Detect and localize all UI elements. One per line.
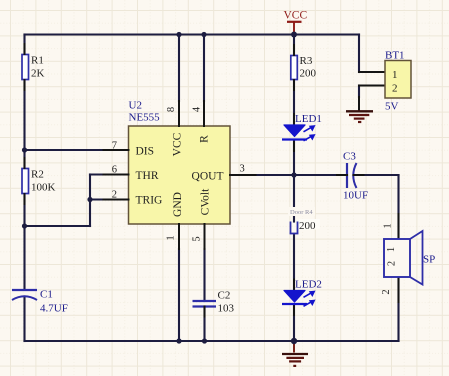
svg-text:U2: U2: [129, 100, 142, 112]
svg-text:R2: R2: [31, 169, 44, 181]
svg-text:THR: THR: [136, 170, 159, 182]
svg-text:1: 1: [166, 235, 177, 240]
svg-text:QOUT: QOUT: [192, 171, 224, 183]
svg-text:LED1: LED1: [295, 113, 322, 125]
svg-text:R1: R1: [31, 55, 44, 67]
svg-text:1: 1: [392, 69, 398, 81]
svg-text:VCC: VCC: [284, 10, 308, 22]
svg-text:2K: 2K: [31, 68, 45, 80]
svg-text:C2: C2: [218, 290, 231, 302]
svg-text:2: 2: [381, 289, 392, 294]
svg-text:200: 200: [299, 220, 316, 232]
svg-text:5V: 5V: [385, 101, 399, 113]
svg-text:3: 3: [240, 164, 245, 175]
svg-text:C1: C1: [40, 289, 53, 301]
svg-text:NE555: NE555: [129, 112, 161, 124]
svg-text:Door R4: Door R4: [290, 209, 313, 216]
svg-text:5: 5: [192, 236, 203, 241]
svg-text:VCC: VCC: [172, 132, 184, 156]
svg-text:8: 8: [166, 107, 177, 112]
svg-text:10UF: 10UF: [343, 190, 368, 202]
svg-text:4.7UF: 4.7UF: [40, 303, 68, 315]
svg-text:100K: 100K: [31, 182, 56, 194]
svg-text:6: 6: [112, 165, 117, 176]
svg-text:103: 103: [218, 303, 235, 315]
svg-text:C3: C3: [343, 151, 356, 163]
svg-text:7: 7: [112, 141, 117, 152]
svg-text:2: 2: [112, 190, 117, 201]
svg-text:LED2: LED2: [295, 279, 322, 291]
svg-text:TRIG: TRIG: [136, 195, 163, 207]
svg-text:1: 1: [386, 247, 397, 252]
svg-text:2: 2: [392, 83, 398, 95]
svg-text:2: 2: [387, 261, 398, 266]
svg-text:1: 1: [383, 223, 394, 228]
svg-text:R: R: [199, 135, 211, 143]
svg-text:4: 4: [192, 106, 203, 112]
svg-text:CVolt: CVolt: [200, 188, 212, 215]
svg-text:R3: R3: [300, 55, 313, 67]
svg-text:GND: GND: [172, 192, 184, 217]
svg-text:SP: SP: [423, 254, 435, 266]
svg-text:DIS: DIS: [136, 146, 155, 158]
svg-text:BT1: BT1: [385, 50, 405, 62]
svg-text:200: 200: [300, 68, 317, 80]
